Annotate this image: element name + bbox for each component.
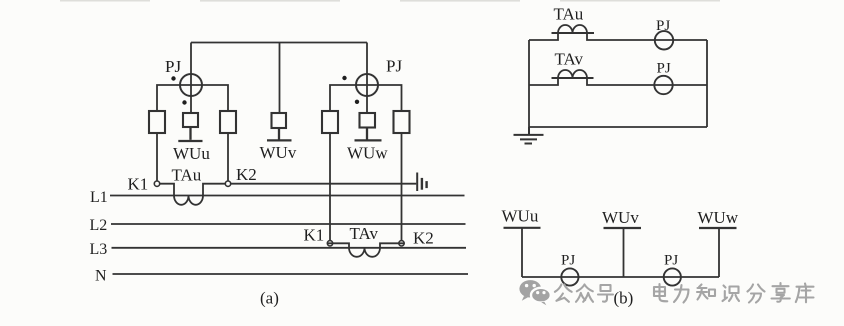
svg-text:PJ: PJ <box>561 253 575 269</box>
wire right bus (b) <box>706 40 708 127</box>
svg-text:K2: K2 <box>413 229 434 248</box>
meter PJ circuit 1 (b) <box>655 31 673 49</box>
wire from WUv (b) <box>623 228 625 277</box>
svg-text:WUu: WUu <box>502 207 539 226</box>
svg-text:TAu: TAu <box>172 166 202 185</box>
polarity dot PJ left-top <box>171 76 175 80</box>
wire fuse to K2 of TAv <box>401 133 403 241</box>
glyph xiang <box>772 283 790 302</box>
wire drop to meter PJ (left) <box>190 43 192 114</box>
glyph li <box>674 285 689 303</box>
meter PJ circuit 2 (b) <box>654 76 672 94</box>
bus L3 <box>112 247 467 249</box>
watermark wechat icon small bubble <box>531 288 551 305</box>
svg-text:PJ: PJ <box>656 18 670 34</box>
wire fuse to K1 of TAv <box>329 133 331 241</box>
svg-text:PJ: PJ <box>664 253 678 269</box>
svg-text:K1: K1 <box>304 226 325 245</box>
polarity dot PJ right-top <box>342 76 346 80</box>
terminal bar WUu (b) <box>504 227 541 229</box>
terminal bar WUv <box>267 128 292 140</box>
fuse (left of TAu secondary, K1 side) <box>149 111 165 133</box>
svg-text:L2: L2 <box>90 217 108 234</box>
CT TAu primary bar (b) <box>552 32 595 34</box>
svg-text:L3: L3 <box>90 241 108 258</box>
wire fuse to K2 <box>227 133 229 181</box>
glyph shi <box>723 286 740 302</box>
svg-text:(b): (b) <box>614 289 634 308</box>
svg-text:WUw: WUw <box>347 144 388 163</box>
svg-text:K1: K1 <box>128 175 149 194</box>
wire circuit 2 with TAv secondary <box>529 78 707 85</box>
svg-text:WUv: WUv <box>602 208 639 227</box>
meter PJ (left) <box>180 74 202 96</box>
wire bottom return (b) <box>529 126 707 128</box>
svg-text:(a): (a) <box>260 289 279 308</box>
CT TAu secondary winding <box>160 184 226 205</box>
glyph zhong <box>576 285 593 302</box>
wire drop to meter PJ (right) <box>366 43 368 114</box>
terminal bar WUv (b) <box>604 227 642 229</box>
wire horizontal through left meter to side fuses <box>157 85 228 111</box>
wire bottom connecting (b) <box>522 276 719 278</box>
CT TAv secondary winding <box>327 243 404 257</box>
meter PJ between WUu and WUv (b) <box>561 268 578 285</box>
glyph ku <box>796 284 814 303</box>
glyph hao <box>598 285 613 302</box>
svg-text:WUw: WUw <box>698 208 739 227</box>
polarity dot PJ right-bottom <box>355 100 359 104</box>
watermark text gongzhonghao + dianli zhishi fenxiang ku (hand-drawn glyphs) <box>555 283 814 303</box>
wire top bus of meters <box>191 42 367 44</box>
terminal K1 of TAv <box>327 241 332 246</box>
bus N <box>113 273 469 275</box>
wire circuit 1 with TAu secondary <box>529 33 707 40</box>
bus L2 <box>111 223 466 225</box>
glyph fen <box>748 285 765 303</box>
svg-text:PJ: PJ <box>165 57 181 76</box>
terminal bar WUu <box>178 127 202 141</box>
wire left bus (b) <box>528 40 530 127</box>
terminal bar WUw (b) <box>699 227 737 229</box>
CT TAv primary bar (b) <box>552 77 594 79</box>
svg-text:TAu: TAu <box>554 4 584 23</box>
terminal bar WUw <box>355 128 382 141</box>
terminal K2 of TAv <box>399 241 404 246</box>
CT TAu secondary winding (b) <box>558 25 587 33</box>
svg-text:PJ: PJ <box>386 57 402 76</box>
svg-text:WUu: WUu <box>173 144 210 163</box>
svg-text:N: N <box>95 268 107 285</box>
terminal K2 of TAu <box>225 181 230 186</box>
wire K2 to earth terminal <box>231 183 417 185</box>
svg-text:WUv: WUv <box>260 143 297 162</box>
ground symbol (b) <box>514 127 544 144</box>
glyph gong <box>555 285 572 302</box>
polarity dot PJ left-bottom <box>182 100 186 104</box>
fuse WUv <box>272 113 287 128</box>
scan artifact top edge <box>60 0 720 2</box>
bus L1 <box>110 195 465 197</box>
svg-text:L1: L1 <box>90 189 108 206</box>
meter PJ between WUv and WUw (b) <box>664 268 681 285</box>
CT TAv secondary winding (b) <box>558 70 587 78</box>
voltage element WUw <box>360 113 376 128</box>
voltage element WUu <box>183 113 198 127</box>
fuse (right, K2 side) <box>220 111 236 133</box>
wire horizontal through right meter to side fuses <box>330 85 402 111</box>
wire drop to fuse WUv <box>279 43 281 114</box>
svg-text:PJ: PJ <box>657 61 671 77</box>
wire from WUu (b) <box>521 228 523 277</box>
glyph dian <box>654 284 667 301</box>
wire from WUw (b) <box>718 228 720 277</box>
glyph zhi <box>697 285 715 300</box>
fuse (left of TAv secondary, K1 side) <box>322 111 338 133</box>
wire fuse to K1 <box>156 133 158 181</box>
terminal K1 of TAu <box>154 181 159 186</box>
meter PJ (right) <box>356 74 378 96</box>
watermark wechat icon big bubble <box>519 280 541 301</box>
svg-text:TAv: TAv <box>350 224 379 243</box>
earth terminal symbol <box>416 173 418 192</box>
svg-text:K2: K2 <box>236 165 257 184</box>
fuse (right, K2 of TAv side) <box>394 111 410 133</box>
svg-text:TAv: TAv <box>555 50 584 69</box>
